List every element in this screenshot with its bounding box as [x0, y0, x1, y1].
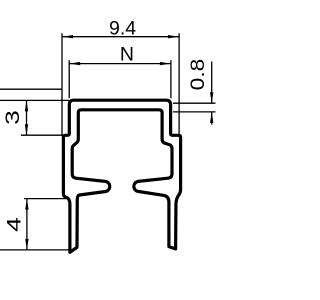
dimension 0.8: extension line top — [173, 102, 216, 104]
dimension 9.4: left arrowhead — [62, 35, 73, 38]
dimension 0.8: up arrowhead — [210, 112, 213, 123]
dimension 0.8: dimension line lower segment — [211, 112, 213, 125]
dimension 3: extension line bottom — [21, 134, 63, 136]
svg-text:3: 3 — [2, 110, 24, 125]
dimension N: dimension line — [69, 63, 171, 65]
dimension 0.8: dimension line upper segment — [211, 62, 213, 104]
dimension 9.4: dimension line — [62, 36, 179, 38]
dimension 9.4: extension line left — [61, 33, 63, 136]
svg-text:0.8: 0.8 — [188, 59, 209, 91]
dimension 4: extension line top — [24, 198, 67, 200]
svg-text:9.4: 9.4 — [109, 18, 136, 40]
dimension 9.4: right arrowhead — [168, 35, 179, 38]
stray extension line upper left — [0, 88, 62, 90]
dimension 3: dimension line — [26, 100, 28, 135]
dimension 0.8: extension line bottom — [173, 111, 216, 113]
dimension 3: bottom arrowhead — [25, 124, 28, 135]
svg-text:4: 4 — [3, 217, 25, 232]
dimension N: extension line right — [170, 60, 172, 98]
dimension 3: top arrowhead — [25, 100, 28, 111]
svg-text:N: N — [120, 43, 134, 65]
dimension 4: top arrowhead — [25, 199, 28, 210]
dimension 0.8: down arrowhead — [210, 92, 213, 103]
dimension N: left arrowhead — [69, 62, 80, 65]
dimension N: extension line left — [68, 60, 70, 98]
dimension 4: dimension line — [26, 199, 28, 250]
dimension 9.4: extension line right — [178, 33, 180, 134]
dimension 4: extension line bottom — [0, 249, 69, 251]
profile outline (extrusion cross-section) — [63, 100, 180, 252]
dimension 3: extension line top — [0, 99, 69, 101]
dimension N: right arrowhead — [160, 62, 171, 65]
dimension 4: bottom arrowhead — [25, 239, 28, 250]
